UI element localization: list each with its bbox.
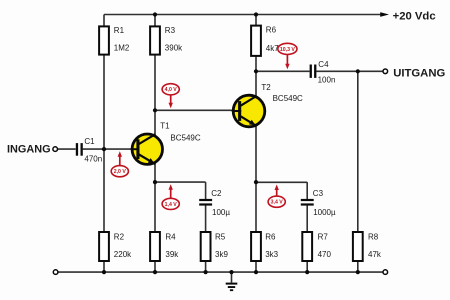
svg-text:R4: R4 <box>165 232 176 241</box>
svg-text:R5: R5 <box>215 232 226 241</box>
svg-text:T2: T2 <box>261 83 271 92</box>
svg-text:R3: R3 <box>165 26 176 35</box>
svg-text:100µ: 100µ <box>212 208 230 217</box>
svg-text:R2: R2 <box>114 232 125 241</box>
svg-text:+20 Vdc: +20 Vdc <box>393 10 436 22</box>
svg-text:100n: 100n <box>318 76 336 85</box>
svg-text:C4: C4 <box>318 60 329 69</box>
svg-text:390k: 390k <box>165 44 183 53</box>
svg-text:UITGANG: UITGANG <box>393 68 445 80</box>
svg-text:BC549C: BC549C <box>170 133 200 142</box>
svg-text:T1: T1 <box>160 121 170 130</box>
svg-text:3k3: 3k3 <box>265 250 278 259</box>
svg-text:39k: 39k <box>165 250 179 259</box>
svg-text:INGANG: INGANG <box>7 143 51 155</box>
svg-text:470n: 470n <box>84 154 102 163</box>
svg-text:R7: R7 <box>318 232 329 241</box>
svg-text:4k7: 4k7 <box>266 44 279 53</box>
svg-text:2,0 V: 2,0 V <box>114 169 127 175</box>
svg-text:10,3 V: 10,3 V <box>280 47 296 53</box>
svg-text:R6: R6 <box>265 232 276 241</box>
svg-text:47k: 47k <box>368 250 382 259</box>
svg-text:R6: R6 <box>266 26 277 35</box>
svg-text:BC549C: BC549C <box>273 94 303 103</box>
svg-text:C2: C2 <box>211 189 222 198</box>
svg-text:C3: C3 <box>313 189 324 198</box>
svg-text:220k: 220k <box>114 250 132 259</box>
svg-text:3,4 V: 3,4 V <box>271 200 284 206</box>
svg-text:470: 470 <box>318 250 332 259</box>
svg-text:1000µ: 1000µ <box>313 208 336 217</box>
svg-text:C1: C1 <box>84 137 95 146</box>
svg-text:4,0 V: 4,0 V <box>165 87 178 93</box>
svg-text:3k9: 3k9 <box>215 250 228 259</box>
svg-text:1,4 V: 1,4 V <box>165 202 178 208</box>
svg-text:1M2: 1M2 <box>114 44 130 53</box>
svg-text:R8: R8 <box>368 232 379 241</box>
svg-text:R1: R1 <box>114 26 125 35</box>
